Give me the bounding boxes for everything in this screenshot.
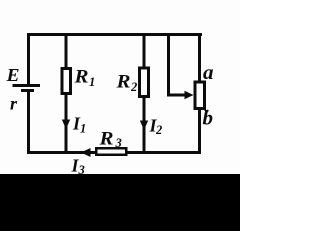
svg-text:b: b [203,106,214,130]
wire bottom right segment [126,151,202,154]
svg-text:R: R [115,73,130,93]
svg-text:1: 1 [80,122,86,136]
wire right upper (top wire to rheostat terminal a) [198,33,201,81]
wire left lower (battery - lead) [27,92,30,154]
svg-text:r: r [10,94,18,114]
battery E,r short plate [21,89,34,92]
svg-text:2: 2 [130,80,137,94]
wire top (node from battery + to loads) [27,33,202,36]
svg-text:2: 2 [155,123,162,137]
speck (scan dot near terminal b) [206,110,208,112]
wire wiper feed horizontal [167,94,186,97]
resistor R3 (horizontal, in bottom wire) [96,148,126,155]
arrow I2 (current down through R2) [140,121,148,131]
wire wiper feed vertical [167,33,170,95]
wire right lower (rheostat terminal b to bottom wire) [198,109,201,155]
svg-text:R: R [98,130,113,150]
battery E,r long plate [13,84,41,87]
wire branch R2 top [143,33,146,68]
svg-text:E: E [5,65,19,85]
black bar bottom [0,174,240,231]
wire branch R1 bottom [65,95,68,153]
svg-text:a: a [203,60,214,84]
svg-text:1: 1 [89,75,95,89]
resistor R1 (vertical) [62,69,71,94]
arrow I1 (current down through R1) [62,120,70,130]
wire left upper (battery + lead) [27,33,30,84]
arrow I3 (current through R3, pointing left) [81,148,91,157]
wire bottom left segment [27,151,96,154]
rheostat ab (potentiometer body) [195,82,205,109]
wire branch R1 top [65,33,68,68]
arrow wiper (pointing right into rheostat) [185,91,194,100]
svg-text:3: 3 [115,136,122,150]
wire branch R2 bottom [143,97,146,153]
resistor R2 (vertical) [140,68,149,97]
svg-text:R: R [73,68,88,88]
